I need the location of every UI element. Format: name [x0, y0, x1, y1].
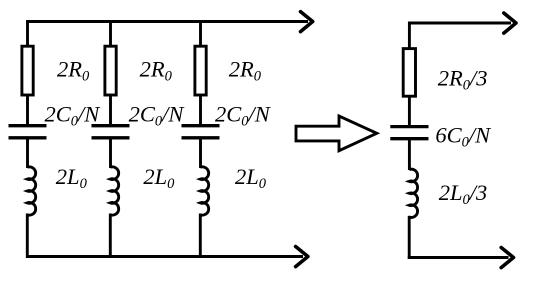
wire: branch 2 top (rail to resistor) — [109, 20, 112, 46]
wire: right capacitor to inductor — [408, 139, 411, 170]
wire: branch 1 top (rail to resistor) — [26, 20, 29, 46]
capacitor C2 (2C0/N) top plate — [92, 124, 130, 127]
wire: left bottom rail — [26, 255, 303, 258]
svg-text:2C0/N: 2C0/N — [129, 101, 186, 129]
inductor L2 (2L0) — [110, 167, 118, 215]
wire: right branch top (rail to resistor) — [408, 22, 411, 49]
capacitor C1 (2C0/N) top plate — [9, 124, 47, 127]
inductor L3 (2L0) — [200, 167, 208, 215]
wire: right top rail arrowhead — [504, 13, 516, 33]
svg-text:2R0: 2R0 — [57, 57, 90, 85]
svg-text:2R0: 2R0 — [140, 57, 173, 85]
wire: right resistor to capacitor — [408, 96, 411, 126]
wire: right bottom rail — [408, 256, 509, 259]
svg-text:2L0/3: 2L0/3 — [439, 180, 488, 208]
wire: branch 1 capacitor to inductor — [26, 138, 29, 168]
inductor L1 (2L0) — [27, 167, 35, 215]
wire: branch 1 resistor to capacitor — [26, 95, 29, 125]
wire: left top rail — [26, 20, 308, 23]
wire: branch 3 inductor to bottom rail — [199, 214, 202, 259]
svg-text:2L0: 2L0 — [235, 164, 267, 192]
capacitor C2 (2C0/N) bottom plate — [92, 136, 130, 139]
wire: branch 3 top (rail to resistor) — [199, 20, 202, 46]
wire: left bottom rail arrowhead — [296, 247, 308, 267]
resistor R3 (2R0) — [195, 46, 206, 95]
svg-text:6C0/N: 6C0/N — [435, 123, 492, 151]
svg-text:2L0: 2L0 — [56, 164, 88, 192]
capacitor C4 (6C0/N) top plate — [390, 125, 428, 128]
capacitor C4 (6C0/N) bottom plate — [390, 137, 428, 140]
wire: branch 3 resistor to capacitor — [199, 95, 202, 125]
wire: branch 3 capacitor to inductor — [199, 138, 202, 168]
wire: branch 2 capacitor to inductor — [109, 138, 112, 168]
svg-text:2R0: 2R0 — [229, 57, 262, 85]
svg-text:2L0: 2L0 — [143, 164, 175, 192]
svg-text:2R0/3: 2R0/3 — [438, 66, 488, 94]
resistor R2 (2R0) — [105, 46, 116, 95]
capacitor C3 (2C0/N) top plate — [182, 124, 220, 127]
resistor R4 (2R0/3) — [403, 49, 415, 97]
equivalence arrow (hollow block arrow) — [296, 116, 377, 151]
svg-text:2C0/N: 2C0/N — [215, 101, 272, 129]
svg-text:2C0/N: 2C0/N — [45, 101, 102, 129]
capacitor C1 (2C0/N) bottom plate — [9, 136, 47, 139]
resistor R1 (2R0) — [22, 46, 33, 95]
wire: right inductor to bottom rail — [408, 216, 411, 259]
wire: branch 1 inductor to bottom rail — [26, 214, 29, 259]
wire: branch 2 inductor to bottom rail — [109, 214, 112, 259]
inductor L4 (2L0/3) — [409, 169, 417, 217]
wire: left top rail arrowhead — [301, 12, 313, 32]
wire: branch 2 resistor to capacitor — [109, 95, 112, 125]
wire: right bottom rail arrowhead — [501, 248, 513, 268]
capacitor C3 (2C0/N) bottom plate — [182, 136, 220, 139]
wire: right top rail — [408, 22, 511, 25]
